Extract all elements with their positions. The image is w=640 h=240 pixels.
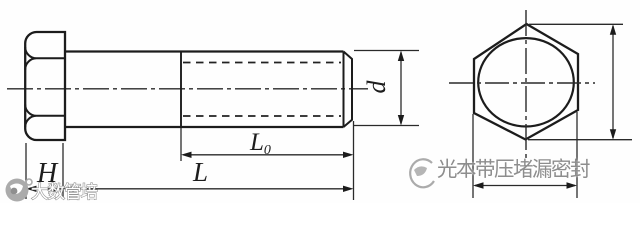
wire dimension line H [26,188,63,190]
wire extension line right for across-flats dimension [576,112,578,198]
wire vertical centerline of end view [525,10,527,162]
wire extension line top for across-corners dimension [529,23,623,25]
wire dimension line across flats (bottom) [475,185,575,187]
node hexagon end view [474,24,578,140]
wire extension line at bolt end for L0 and L [353,121,355,200]
wire extension line left for H [25,143,27,199]
svg-text:L: L [192,157,208,187]
node shank bottom edge [65,126,344,128]
node chamfer boundary line at bolt end [343,52,345,128]
wire dimension line d [400,53,402,124]
svg-text:d: d [362,80,391,94]
wire extension line bottom for d [354,125,419,127]
node head upper face boundary with fillets [25,47,65,70]
wire extension line right for H / left for L [62,143,64,199]
node head lower face boundary with fillets [25,105,65,128]
wire dimension line across corners (right) [612,26,614,138]
wire dimension line L0 [183,154,351,156]
node watermark logo bottom-left [6,179,33,202]
node thread minor diameter top (dashed) [183,62,341,64]
wire extension line top for d [354,50,419,52]
node chamfer circle (ellipse) [478,38,574,126]
node watermark logo right [410,159,434,187]
svg-text:大数管培: 大数管培 [31,182,97,202]
wire dimension line L [65,188,351,190]
node thread minor diameter bottom (dashed) [183,115,341,117]
wire extension line bottom for across-corners dimension [528,139,632,141]
node head outline (side view hex head) [25,32,65,140]
wire extension line left for across-flats dimension [472,114,474,198]
node thread start line [180,52,182,128]
svg-text:L0: L0 [249,129,271,158]
node shank top edge [65,50,344,52]
wire horizontal centerline of end view [449,82,595,84]
svg-text:光本带压堵漏密封: 光本带压堵漏密封 [437,158,590,181]
wire extension line for L0 at thread start [180,128,182,161]
node end face of bolt [344,52,353,128]
wire centerline of bolt (side view) [7,88,368,90]
